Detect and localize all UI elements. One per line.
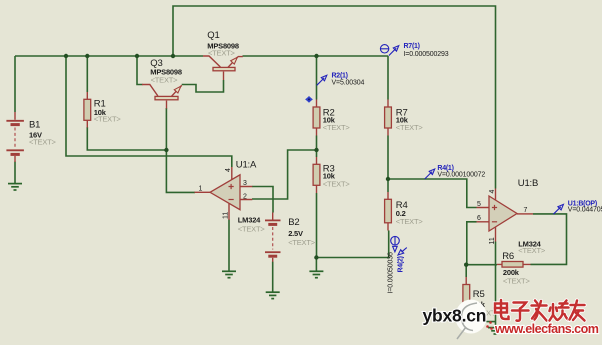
resistor R1 — [84, 92, 91, 128]
svg-text:U1:A: U1:A — [236, 160, 257, 171]
svg-text:www.elecfans.com: www.elecfans.com — [494, 322, 599, 336]
svg-text:<TEXT>: <TEXT> — [396, 217, 424, 226]
label R5 — [473, 289, 501, 318]
svg-text:2: 2 — [243, 193, 247, 200]
svg-text:6: 6 — [477, 215, 481, 222]
node riser x66 on bus — [64, 54, 68, 58]
label probe U1:B(OP) — [568, 200, 602, 213]
wire R2 top lead riser — [316, 56, 318, 100]
label R4 — [396, 200, 424, 226]
svg-text:<TEXT>: <TEXT> — [208, 49, 236, 58]
resistor R6 — [497, 262, 531, 268]
transistor Q1 — [203, 56, 243, 80]
watermark dots — [486, 321, 493, 330]
wire R3 top lead — [316, 150, 318, 157]
svg-text:4: 4 — [489, 190, 496, 194]
wire junction to U1:A pin2 — [252, 150, 317, 199]
svg-text:R4(2): R4(2) — [398, 256, 405, 272]
svg-text:I=0.000500293: I=0.000500293 — [404, 51, 449, 58]
node R6 R5 pin6 junction — [464, 263, 468, 267]
ground below R3 — [309, 271, 323, 277]
label Q1 — [207, 30, 239, 57]
wire 16V bus — [15, 55, 203, 57]
transistor Q3 — [142, 85, 182, 109]
battery B1 — [6, 112, 24, 162]
node R1 top on bus — [85, 54, 89, 58]
svg-text:<TEXT>: <TEXT> — [323, 123, 351, 132]
node R2 R3 junction — [314, 148, 318, 152]
op-amp U1:A — [195, 167, 253, 220]
svg-text:R5: R5 — [473, 289, 485, 300]
label probe R4(2) — [387, 252, 404, 293]
ground below B1 — [8, 184, 22, 190]
svg-text:<TEXT>: <TEXT> — [323, 179, 351, 188]
svg-text:LM324: LM324 — [238, 215, 261, 224]
svg-text:V=0.000100072: V=0.000100072 — [437, 172, 485, 179]
wire ground stem R3 — [315, 258, 317, 271]
wire R5 bottom to ground — [466, 312, 495, 322]
current probe R4(2) — [391, 236, 407, 255]
svg-text:<TEXT>: <TEXT> — [238, 225, 266, 234]
label R1 — [94, 98, 122, 123]
marker plus R2 — [305, 96, 313, 103]
svg-text:<TEXT>: <TEXT> — [29, 138, 57, 147]
voltage probe R2(1) — [317, 75, 327, 85]
svg-text:5: 5 — [477, 201, 481, 208]
label R6 — [502, 251, 530, 286]
wire Q3 emitter to Q1 base — [182, 80, 224, 92]
label U1:B — [518, 178, 546, 255]
label probe R7(1) — [404, 43, 449, 58]
wire U1:B pin11 down to ground — [495, 242, 497, 328]
wire U1:A pin11 down — [228, 220, 230, 271]
label probe R4(1) — [437, 165, 485, 179]
svg-text:B2: B2 — [288, 217, 299, 228]
ground below U1:A pin11 — [222, 271, 236, 277]
wire riser to U1:A pin4 — [66, 56, 232, 167]
node R3 R4 ground junction — [314, 255, 318, 259]
svg-text:11: 11 — [223, 212, 230, 219]
wire U1:B pin6 to feedback node — [467, 222, 477, 265]
label Q3 — [150, 58, 182, 84]
svg-text:2.5V: 2.5V — [288, 229, 303, 238]
node R2 top — [314, 54, 318, 58]
svg-text:V=0.0447059: V=0.0447059 — [568, 206, 602, 213]
svg-text:3: 3 — [243, 180, 247, 187]
watermark chinese char zi — [512, 303, 529, 321]
svg-text:B1: B1 — [29, 119, 40, 130]
svg-text:ybx8.cn: ybx8.cn — [423, 306, 487, 326]
wire R4 bottom to ground node — [317, 231, 389, 258]
label B1 — [29, 119, 57, 146]
watermark chinese char dian — [495, 300, 509, 319]
resistor R3 — [313, 157, 320, 193]
ground below B2 — [266, 292, 280, 298]
wire R4 top lead — [387, 179, 389, 192]
svg-text:V=5.00304: V=5.00304 — [332, 79, 365, 86]
label R7 — [396, 107, 424, 132]
wire R7 node to U1:B pin5 — [388, 179, 477, 208]
svg-text:<TEXT>: <TEXT> — [288, 238, 316, 247]
svg-text:U1:B: U1:B — [518, 178, 538, 189]
current probe R7(1) — [380, 45, 398, 56]
svg-text:4: 4 — [225, 168, 232, 172]
wire R1 top — [86, 56, 88, 92]
wire Q1 emitter to R2 R7 tops — [243, 55, 389, 57]
wire R5 top lead — [465, 265, 467, 277]
wire R1 bottom to feedback node — [87, 127, 166, 150]
wire U1:B pin7 to R6 right — [531, 214, 567, 265]
wire top rail — [173, 6, 496, 189]
label R2 — [323, 107, 351, 132]
wire U1:A pin3 to B2 — [252, 187, 273, 213]
resistor R7 — [385, 100, 392, 136]
svg-text:<TEXT>: <TEXT> — [151, 75, 179, 84]
wire B1 top riser — [14, 56, 16, 112]
ground bottom right — [488, 328, 502, 334]
label probe R2(1) — [332, 73, 365, 87]
voltage probe U1:B(OP) — [553, 204, 563, 214]
svg-text:1: 1 — [199, 185, 203, 192]
svg-text:I=0.00050036: I=0.00050036 — [387, 252, 394, 293]
svg-text:11: 11 — [489, 237, 496, 244]
svg-text:R6: R6 — [502, 251, 514, 262]
watermark chinese char you — [570, 301, 585, 321]
wire R3 bottom to ground node — [316, 193, 318, 258]
battery B2 — [265, 213, 281, 262]
wire R2 bottom to junction — [316, 136, 318, 151]
wire B1 bottom — [14, 162, 16, 184]
wire R6 left to node — [466, 264, 497, 266]
svg-text:R7(1): R7(1) — [404, 43, 420, 50]
svg-text:Q1: Q1 — [207, 30, 219, 41]
svg-text:<TEXT>: <TEXT> — [396, 123, 424, 132]
watermark chinese char fa — [532, 301, 547, 321]
label B2 — [288, 217, 316, 247]
resistor R5 — [463, 277, 470, 312]
svg-text:<TEXT>: <TEXT> — [518, 246, 546, 255]
node R7 R4 junction — [386, 177, 390, 181]
svg-text:<TEXT>: <TEXT> — [503, 276, 531, 285]
svg-text:<TEXT>: <TEXT> — [94, 115, 122, 124]
watermark logo circle — [455, 300, 487, 340]
label U1:A — [236, 160, 266, 234]
resistor R4 — [385, 192, 392, 231]
wire R7 bottom riser — [387, 136, 389, 180]
node top rail on bus — [171, 54, 175, 58]
voltage probe R4(1) — [425, 169, 435, 179]
wire R7 top riser — [387, 56, 389, 100]
wire Q3 collector riser — [137, 56, 143, 85]
label R3 — [323, 163, 351, 188]
op-amp U1:B — [477, 189, 534, 242]
node Q3 collector on bus — [135, 54, 139, 58]
node feedback R1 Q3 base — [164, 148, 168, 152]
wire B2 bottom — [272, 262, 274, 292]
watermark chinese char shao — [550, 301, 570, 321]
wire U1:A output to feedback node — [166, 108, 195, 192]
resistor R2 — [313, 100, 320, 136]
svg-text:7: 7 — [524, 207, 528, 214]
